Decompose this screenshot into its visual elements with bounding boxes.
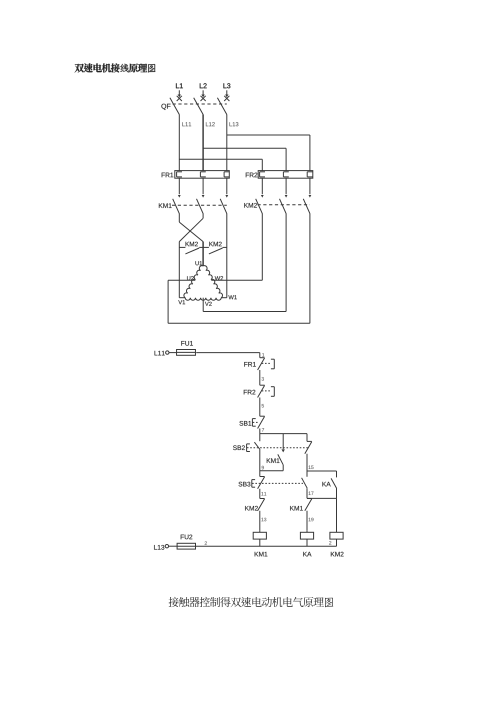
pushbutton SB2 high-speed start (NO): [233, 442, 309, 451]
wire L11 vertical QF to FR1: [178, 115, 180, 171]
coil KM2: [329, 498, 343, 556]
wire to U1: [202, 242, 204, 266]
node L3 (incoming phase terminal): [223, 83, 230, 101]
wire L13 vertical QF to FR1: [226, 115, 228, 171]
pushbutton SB1 stop (NC): [239, 416, 264, 428]
node L11: [182, 122, 191, 126]
thermal overload relay FR1: [162, 171, 230, 179]
wire FR to KM contact: [309, 178, 311, 194]
coil KM1: [253, 530, 267, 556]
title 双速电机接线原理图: [75, 63, 156, 72]
interlock contact KM1 (NC): [290, 499, 312, 511]
pushbutton SB3 low-speed start (NC): [239, 477, 303, 489]
wire KM1 phase2 down: [202, 214, 204, 219]
wire FR to KM contact: [178, 178, 180, 194]
wire KM2 phase1 to tap W2: [211, 214, 262, 281]
wire FR to KM contact: [285, 178, 287, 194]
wire node 2 bottom rail: [169, 541, 337, 546]
wire node 5: [260, 398, 264, 417]
pushbutton SB3 linked contact (NO): [302, 478, 308, 499]
wire FR to KM contact: [261, 178, 263, 194]
wire node 3: [260, 370, 264, 385]
contactor KM2 star-point contact a: [179, 242, 203, 254]
wire branch L13 to FR2: [227, 135, 310, 171]
node L11 control terminal: [155, 351, 169, 356]
contactor KM2 main contacts: [244, 195, 311, 214]
wire FR to KM contact: [226, 178, 228, 194]
overload contact FR1 (NC): [244, 358, 274, 370]
wire to V1: [179, 242, 185, 298]
wire KM1 phase1 down: [178, 214, 180, 223]
relay contact KA self-holding (NO): [322, 471, 336, 498]
wire node 9: [260, 450, 264, 477]
fuse FU1: [177, 341, 196, 355]
contactor KM1 main contacts: [159, 195, 228, 214]
circuit breaker QF: [161, 98, 226, 115]
node L2 (incoming phase terminal): [200, 83, 207, 101]
overload contact FR2 (NC): [244, 385, 275, 397]
wire crossing phase1/phase2: [179, 218, 203, 241]
wire node 19: [307, 511, 314, 531]
thermal overload relay FR2: [246, 171, 313, 179]
node 1: [262, 353, 264, 356]
wire node 13: [260, 511, 267, 531]
node L13: [229, 122, 238, 126]
caption 接触器控制得双速电动机电气原理图: [169, 597, 334, 607]
contactor KM2 star-point contact b: [203, 242, 227, 254]
wire node 7: [260, 428, 264, 441]
wire L12 vertical QF to FR1: [202, 115, 204, 171]
coil KA: [300, 530, 313, 556]
pushbutton SB2 linked contact (NC): [305, 434, 312, 477]
wire branch L12 to FR2: [203, 148, 286, 170]
auxiliary contact KM1 self-holding (NO): [260, 434, 285, 471]
wire node 11: [260, 489, 267, 499]
wire node7 rail: [260, 433, 307, 435]
interlock contact KM2 (NC): [245, 499, 264, 511]
node 15: [307, 466, 337, 471]
wire KM2 phase2 to tap V2: [203, 214, 286, 312]
motor winding delta (U1-V1-W1 with taps U2 V2 W2): [178, 261, 236, 306]
wire node 17: [307, 492, 337, 499]
wire FR to KM contact: [202, 178, 204, 194]
node L1 (incoming phase terminal): [176, 83, 183, 101]
wire KM1 phase3 to W1: [221, 214, 227, 298]
node L12: [206, 122, 215, 126]
wire KM2 phase3 to tap U2: [168, 214, 310, 324]
node L13 control terminal: [154, 545, 168, 550]
fuse FU2: [177, 535, 195, 550]
wire L11 to node 1: [169, 353, 260, 358]
wire branch L11 to FR2: [179, 159, 262, 170]
